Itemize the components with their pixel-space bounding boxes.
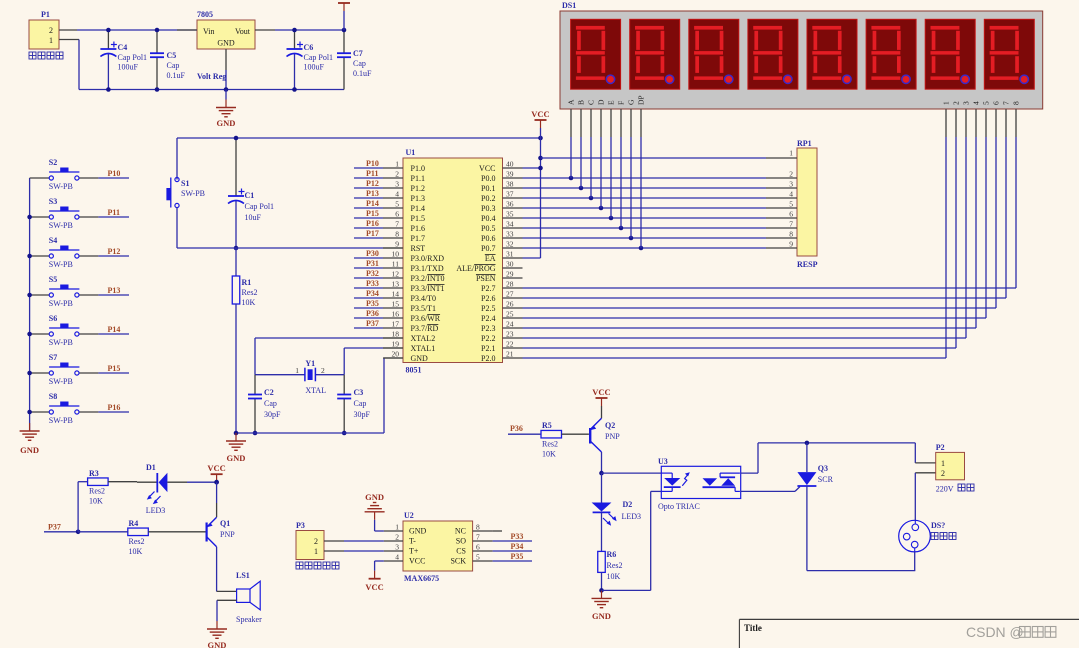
svg-text:P11: P11 bbox=[366, 169, 378, 178]
svg-text:Volt Reg: Volt Reg bbox=[197, 72, 226, 81]
svg-text:Res2: Res2 bbox=[607, 561, 623, 570]
svg-text:D: D bbox=[597, 99, 606, 105]
node P36 bbox=[354, 309, 383, 318]
watermark bbox=[966, 624, 1056, 640]
node P12 bbox=[98, 247, 129, 256]
svg-text:P0.6: P0.6 bbox=[481, 234, 495, 243]
svg-text:10K: 10K bbox=[542, 450, 556, 459]
svg-text:SW-PB: SW-PB bbox=[49, 221, 73, 230]
wire switch-column vertical bbox=[29, 178, 31, 431]
pin 38 P0.1 bbox=[481, 180, 522, 194]
svg-text:P0.4: P0.4 bbox=[481, 214, 495, 223]
svg-text:7: 7 bbox=[789, 220, 793, 229]
svg-text:P33: P33 bbox=[366, 279, 379, 288]
svg-text:P2.5: P2.5 bbox=[481, 304, 495, 313]
svg-text:7805: 7805 bbox=[197, 10, 213, 19]
junction bbox=[27, 371, 32, 376]
opto-isolator U3 Opto TRIAC bbox=[658, 457, 741, 511]
svg-text:Opto TRIAC: Opto TRIAC bbox=[658, 502, 700, 511]
svg-text:P34: P34 bbox=[511, 542, 524, 551]
svg-text:PNP: PNP bbox=[605, 432, 620, 441]
svg-text:GND: GND bbox=[227, 453, 246, 463]
svg-text:PNP: PNP bbox=[220, 530, 235, 539]
capacitor C5 bbox=[150, 28, 186, 92]
diode D2 LED3 bbox=[592, 473, 641, 551]
pin G display bbox=[627, 99, 636, 137]
wire XTAL2 branch bbox=[255, 338, 403, 375]
svg-text:30: 30 bbox=[506, 260, 514, 269]
wire segment DP drop bbox=[640, 137, 642, 248]
svg-text:P2.4: P2.4 bbox=[481, 314, 495, 323]
svg-text:P34: P34 bbox=[366, 289, 379, 298]
svg-text:10uF: 10uF bbox=[245, 213, 262, 222]
node P11 bbox=[354, 169, 383, 178]
svg-text:SCK: SCK bbox=[450, 557, 466, 566]
pin 40 VCC bbox=[479, 160, 522, 174]
svg-text:R3: R3 bbox=[89, 469, 99, 478]
resistor R3 bbox=[88, 469, 137, 506]
svg-text:GND: GND bbox=[217, 118, 236, 128]
pin 11 P3.1/TXD bbox=[383, 260, 444, 274]
wire GND rail crystal bbox=[234, 358, 403, 435]
pin 32 P0.7 bbox=[481, 240, 522, 254]
svg-text:P0.7: P0.7 bbox=[481, 244, 495, 253]
wire Q2 to U3 bbox=[602, 472, 662, 474]
wire P2.2 to digit pin3 bbox=[523, 137, 967, 338]
svg-text:15: 15 bbox=[392, 300, 400, 309]
svg-text:32: 32 bbox=[506, 240, 514, 249]
node P31 bbox=[354, 259, 383, 268]
svg-text:E: E bbox=[607, 100, 616, 105]
svg-text:P1.1: P1.1 bbox=[411, 174, 425, 183]
svg-text:LED3: LED3 bbox=[622, 512, 642, 521]
power VCC beeper bbox=[187, 463, 226, 484]
svg-text:Vin: Vin bbox=[203, 27, 215, 36]
node P37 bbox=[354, 319, 383, 328]
wire XTAL1 branch bbox=[344, 348, 403, 375]
svg-text:P10: P10 bbox=[108, 169, 121, 178]
svg-text:P2.2: P2.2 bbox=[481, 334, 495, 343]
svg-text:Cap: Cap bbox=[167, 61, 180, 70]
junction bbox=[27, 215, 32, 220]
wire U3 to Q3 anode bbox=[741, 441, 916, 474]
svg-text:P14: P14 bbox=[366, 199, 379, 208]
resistor pack RP1 bbox=[766, 139, 818, 269]
svg-text:P2.1: P2.1 bbox=[481, 344, 495, 353]
wire P0.5 to RP1 pin7 bbox=[523, 226, 767, 231]
pin 22 P2.1 bbox=[481, 340, 522, 354]
node P15 bbox=[98, 364, 129, 373]
svg-text:14: 14 bbox=[392, 290, 400, 299]
node P13 bbox=[354, 189, 383, 198]
svg-text:35: 35 bbox=[506, 210, 514, 219]
svg-text:P35: P35 bbox=[511, 552, 524, 561]
svg-text:P3.3/INT1: P3.3/INT1 bbox=[411, 284, 445, 293]
svg-text:GND: GND bbox=[20, 445, 39, 455]
pin A display bbox=[567, 99, 576, 137]
svg-text:2: 2 bbox=[952, 101, 961, 105]
pin 10 P3.0/RXD bbox=[383, 250, 444, 264]
svg-text:P1.5: P1.5 bbox=[411, 214, 425, 223]
svg-text:P2: P2 bbox=[936, 443, 945, 452]
svg-text:C1: C1 bbox=[245, 191, 255, 200]
transistor Q2 PNP bbox=[590, 418, 620, 473]
svg-text:Cap Pol1: Cap Pol1 bbox=[304, 53, 334, 62]
svg-text:23: 23 bbox=[506, 330, 514, 339]
svg-text:2: 2 bbox=[941, 469, 945, 478]
node P12 bbox=[354, 179, 383, 188]
svg-text:36: 36 bbox=[506, 200, 514, 209]
svg-text:P1.2: P1.2 bbox=[411, 184, 425, 193]
pin 8 P1.7 bbox=[383, 230, 425, 244]
svg-text:5: 5 bbox=[789, 200, 793, 209]
svg-text:2: 2 bbox=[395, 533, 399, 542]
pin 13 P3.3/INT1 bbox=[383, 280, 445, 294]
svg-text:25: 25 bbox=[506, 310, 514, 319]
svg-text:4: 4 bbox=[395, 553, 399, 562]
svg-text:S6: S6 bbox=[49, 314, 57, 323]
svg-text:21: 21 bbox=[506, 350, 514, 359]
svg-text:D1: D1 bbox=[146, 463, 156, 472]
wire segment G drop bbox=[630, 137, 632, 238]
svg-text:4: 4 bbox=[972, 101, 981, 105]
node P37 branch bbox=[44, 482, 88, 534]
svg-text:P10: P10 bbox=[366, 159, 379, 168]
svg-text:7: 7 bbox=[395, 220, 399, 229]
pin 3 display bbox=[962, 101, 971, 137]
svg-text:34: 34 bbox=[506, 220, 514, 229]
svg-text:P3.6/WR: P3.6/WR bbox=[411, 314, 441, 323]
svg-text:P3.0/RXD: P3.0/RXD bbox=[411, 254, 445, 263]
wire segment E drop bbox=[610, 137, 612, 218]
svg-text:11: 11 bbox=[392, 260, 399, 269]
pin 30 ALE/PROG bbox=[456, 260, 522, 274]
svg-text:0.1uF: 0.1uF bbox=[353, 69, 372, 78]
svg-text:3: 3 bbox=[395, 543, 399, 552]
svg-text:VCC: VCC bbox=[592, 387, 610, 397]
wire P2.3 to digit pin4 bbox=[523, 137, 977, 328]
capacitor C3 bbox=[337, 375, 370, 436]
svg-text:Cap: Cap bbox=[354, 399, 367, 408]
wire Q3 cathode to lamp return bbox=[807, 570, 915, 572]
node P34 at U2 bbox=[493, 542, 532, 551]
svg-text:2: 2 bbox=[789, 170, 793, 179]
svg-text:3: 3 bbox=[789, 180, 793, 189]
junction bbox=[27, 293, 32, 298]
svg-text:P17: P17 bbox=[366, 229, 379, 238]
svg-text:P15: P15 bbox=[366, 209, 379, 218]
pin 2 display bbox=[952, 101, 961, 137]
svg-text:EA: EA bbox=[485, 254, 496, 263]
wire P1 pin1 down to GND rail bbox=[59, 40, 79, 90]
svg-text:SO: SO bbox=[456, 537, 466, 546]
svg-text:Res2: Res2 bbox=[542, 440, 558, 449]
svg-text:10K: 10K bbox=[607, 572, 621, 581]
svg-text:13: 13 bbox=[392, 280, 400, 289]
svg-text:8: 8 bbox=[789, 230, 793, 239]
svg-text:SW-PB: SW-PB bbox=[49, 338, 73, 347]
resistor R6 bbox=[598, 550, 623, 590]
svg-text:8: 8 bbox=[1012, 101, 1021, 105]
svg-text:S2: S2 bbox=[49, 158, 57, 167]
svg-text:5: 5 bbox=[395, 200, 399, 209]
pin 16 P3.6/WR bbox=[383, 310, 441, 324]
pin B display bbox=[577, 100, 586, 137]
wire P0.1 to RP1 pin3 bbox=[523, 186, 767, 191]
svg-text:1: 1 bbox=[789, 149, 793, 158]
switch S8 bbox=[30, 392, 99, 425]
svg-text:P16: P16 bbox=[366, 219, 379, 228]
svg-text:5: 5 bbox=[982, 101, 991, 105]
svg-text:Vout: Vout bbox=[235, 27, 251, 36]
node P16 bbox=[98, 403, 129, 412]
svg-text:F: F bbox=[617, 101, 626, 105]
wire P2.4 to digit pin5 bbox=[523, 137, 987, 318]
wire VCC vertical to EA bbox=[523, 128, 541, 258]
pin 5 P1.4 bbox=[383, 200, 425, 214]
svg-text:Res2: Res2 bbox=[89, 487, 105, 496]
svg-text:P11: P11 bbox=[108, 208, 120, 217]
svg-text:Cap Pol1: Cap Pol1 bbox=[245, 202, 275, 211]
svg-text:5: 5 bbox=[476, 553, 480, 562]
svg-text:P36: P36 bbox=[510, 424, 523, 433]
node P13 bbox=[98, 286, 129, 295]
svg-text:VCC: VCC bbox=[409, 557, 425, 566]
svg-text:Res2: Res2 bbox=[129, 537, 145, 546]
svg-text:MAX6675: MAX6675 bbox=[404, 574, 439, 583]
wire P0.7 to RP1 pin9 bbox=[523, 246, 767, 251]
node P32 bbox=[354, 269, 383, 278]
svg-text:VCC: VCC bbox=[531, 109, 549, 119]
pin 17 P3.7/RD bbox=[383, 320, 439, 334]
svg-text:P3.4/T0: P3.4/T0 bbox=[411, 294, 437, 303]
pin DP display bbox=[637, 95, 646, 137]
connector P1 bbox=[29, 10, 63, 59]
svg-text:28: 28 bbox=[506, 280, 514, 289]
op-amp U2 MAX6675 bbox=[384, 511, 493, 583]
svg-text:P0.2: P0.2 bbox=[481, 194, 495, 203]
svg-text:P3.2/INT0: P3.2/INT0 bbox=[411, 274, 445, 283]
svg-text:29: 29 bbox=[506, 270, 514, 279]
power VCC near U1 bbox=[531, 109, 549, 128]
svg-text:G: G bbox=[627, 99, 636, 105]
svg-text:P33: P33 bbox=[511, 532, 524, 541]
wire P3 to U2 bbox=[344, 541, 384, 551]
svg-text:4: 4 bbox=[789, 190, 793, 199]
svg-text:LS1: LS1 bbox=[236, 571, 250, 580]
junction R6 bottom bbox=[599, 588, 604, 593]
svg-text:C: C bbox=[587, 100, 596, 105]
svg-text:220V: 220V bbox=[936, 485, 954, 494]
capacitor C2 bbox=[248, 375, 281, 436]
junction bbox=[27, 254, 32, 259]
svg-text:C2: C2 bbox=[264, 388, 274, 397]
svg-text:7: 7 bbox=[1002, 101, 1011, 105]
svg-text:XTAL: XTAL bbox=[305, 386, 326, 395]
pin 36 P0.3 bbox=[481, 200, 522, 214]
svg-text:ALE/PROG: ALE/PROG bbox=[456, 264, 495, 273]
svg-text:P2.6: P2.6 bbox=[481, 294, 495, 303]
svg-text:P1.3: P1.3 bbox=[411, 194, 425, 203]
pin 12 P3.2/INT0 bbox=[383, 270, 445, 284]
capacitor C6 bbox=[287, 28, 334, 92]
svg-text:P1.0: P1.0 bbox=[411, 164, 425, 173]
svg-text:GND: GND bbox=[365, 492, 384, 502]
svg-text:37: 37 bbox=[506, 190, 514, 199]
svg-text:VCC: VCC bbox=[365, 582, 383, 592]
svg-text:U3: U3 bbox=[658, 457, 668, 466]
pin 25 P2.4 bbox=[481, 310, 522, 324]
svg-text:Res2: Res2 bbox=[242, 288, 258, 297]
wire NC stub bbox=[493, 530, 502, 532]
svg-text:Q2: Q2 bbox=[605, 421, 615, 430]
pin 7 display bbox=[1002, 101, 1011, 137]
svg-text:26: 26 bbox=[506, 300, 514, 309]
svg-text:RP1: RP1 bbox=[797, 139, 812, 148]
pin 37 P0.2 bbox=[481, 190, 522, 204]
svg-text:CS: CS bbox=[456, 547, 466, 556]
svg-text:3: 3 bbox=[395, 180, 399, 189]
svg-text:1: 1 bbox=[395, 160, 399, 169]
svg-text:P3: P3 bbox=[296, 521, 305, 530]
svg-text:C5: C5 bbox=[167, 51, 177, 60]
pin 28 P2.7 bbox=[481, 280, 522, 294]
svg-text:SW-PB: SW-PB bbox=[49, 416, 73, 425]
svg-text:22: 22 bbox=[506, 340, 514, 349]
svg-text:P1.4: P1.4 bbox=[411, 204, 425, 213]
GND rail top-left bbox=[79, 89, 344, 91]
svg-text:U1: U1 bbox=[406, 148, 416, 157]
svg-text:NC: NC bbox=[455, 527, 466, 536]
svg-text:R5: R5 bbox=[542, 421, 552, 430]
svg-text:R1: R1 bbox=[242, 278, 252, 287]
svg-text:P37: P37 bbox=[366, 319, 379, 328]
wire P2.6 to digit pin7 bbox=[523, 137, 1007, 298]
pin 15 P3.5/T1 bbox=[383, 300, 436, 314]
svg-text:SW-PB: SW-PB bbox=[49, 377, 73, 386]
svg-text:P12: P12 bbox=[108, 247, 121, 256]
op-amp U1 8051 body bbox=[403, 148, 503, 375]
ground speaker bbox=[207, 621, 227, 648]
node P10 bbox=[98, 169, 129, 178]
svg-text:0.1uF: 0.1uF bbox=[167, 71, 186, 80]
ground U2 flipped bbox=[365, 492, 385, 531]
svg-text:24: 24 bbox=[506, 320, 514, 329]
node P14 bbox=[98, 325, 129, 334]
diode D1 LED3 bbox=[137, 463, 187, 515]
resistor R1 bbox=[232, 248, 257, 433]
svg-text:R6: R6 bbox=[607, 550, 617, 559]
wire Vout to VCC bbox=[275, 29, 344, 31]
wire segment A drop bbox=[570, 137, 572, 178]
wire P0.3 to RP1 pin5 bbox=[523, 206, 767, 211]
svg-text:1: 1 bbox=[941, 459, 945, 468]
svg-text:30pF: 30pF bbox=[354, 410, 371, 419]
svg-text:6: 6 bbox=[789, 210, 793, 219]
svg-text:40: 40 bbox=[506, 160, 514, 169]
connector P3 bbox=[296, 521, 344, 569]
wire P2.0 to digit pin1 bbox=[523, 137, 947, 358]
svg-text:P37: P37 bbox=[48, 523, 61, 532]
wire R6 to U3 cathode bbox=[602, 491, 662, 590]
svg-text:P2.3: P2.3 bbox=[481, 324, 495, 333]
svg-text:Q1: Q1 bbox=[220, 519, 230, 528]
svg-text:B: B bbox=[577, 100, 586, 105]
power VCC top-right bbox=[338, 3, 350, 30]
crystal Y1 bbox=[255, 359, 344, 395]
capacitor C4 bbox=[100, 28, 147, 92]
transistor Q3 SCR bbox=[797, 443, 833, 571]
wire P2.7 to digit pin8 bbox=[523, 137, 1017, 288]
junction VCC-topwire bbox=[538, 136, 543, 141]
wire P1 pin2 to VCC rail bbox=[59, 29, 197, 31]
svg-text:P13: P13 bbox=[366, 189, 379, 198]
node P16 bbox=[354, 219, 383, 228]
node P11 bbox=[98, 208, 129, 217]
junction bbox=[27, 332, 32, 337]
transistor Q1 PNP bbox=[187, 482, 236, 591]
svg-text:100uF: 100uF bbox=[118, 63, 139, 72]
svg-text:SCR: SCR bbox=[818, 475, 834, 484]
node P33 at U2 bbox=[493, 532, 532, 541]
pin 8 display bbox=[1012, 101, 1021, 137]
svg-text:D2: D2 bbox=[623, 500, 633, 509]
pin 6 display bbox=[992, 101, 1001, 137]
svg-text:39: 39 bbox=[506, 170, 514, 179]
svg-text:R4: R4 bbox=[129, 519, 139, 528]
svg-text:17: 17 bbox=[392, 320, 400, 329]
wire P0.6 to RP1 pin8 bbox=[523, 236, 767, 241]
svg-text:P0.3: P0.3 bbox=[481, 204, 495, 213]
node P35 bbox=[354, 299, 383, 308]
node P34 bbox=[354, 289, 383, 298]
svg-text:GND: GND bbox=[411, 354, 429, 363]
switch S1 bbox=[166, 138, 205, 248]
pin 4 display bbox=[972, 101, 981, 137]
pin 19 XTAL1 bbox=[383, 340, 435, 354]
pin C display bbox=[587, 100, 596, 137]
svg-text:P30: P30 bbox=[366, 249, 379, 258]
svg-text:P0.0: P0.0 bbox=[481, 174, 495, 183]
svg-text:1: 1 bbox=[314, 547, 318, 556]
node P14 bbox=[354, 199, 383, 208]
svg-text:RST: RST bbox=[411, 244, 426, 253]
svg-text:19: 19 bbox=[392, 340, 400, 349]
switch S2 bbox=[30, 158, 99, 191]
connector P2 bbox=[915, 443, 974, 494]
pin 35 P0.4 bbox=[481, 210, 522, 224]
wire P2.5 to digit pin6 bbox=[523, 137, 997, 308]
svg-text:1: 1 bbox=[395, 523, 399, 532]
svg-text:27: 27 bbox=[506, 290, 514, 299]
pin 4 P1.3 bbox=[383, 190, 425, 204]
svg-text:10: 10 bbox=[392, 250, 400, 259]
pin 21 P2.0 bbox=[481, 350, 522, 364]
svg-text:S1: S1 bbox=[181, 179, 189, 188]
svg-text:18: 18 bbox=[392, 330, 400, 339]
node P36 branch bbox=[508, 424, 541, 434]
svg-text:T+: T+ bbox=[409, 547, 419, 556]
pin 3 P1.2 bbox=[383, 180, 425, 194]
svg-text:6: 6 bbox=[395, 210, 399, 219]
svg-text:1: 1 bbox=[942, 101, 951, 105]
svg-text:VCC: VCC bbox=[207, 463, 225, 473]
svg-text:GND: GND bbox=[217, 39, 235, 48]
svg-text:XTAL1: XTAL1 bbox=[411, 344, 436, 353]
pin 27 P2.6 bbox=[481, 290, 522, 304]
svg-text:LED3: LED3 bbox=[146, 506, 166, 515]
svg-text:2: 2 bbox=[314, 537, 318, 546]
